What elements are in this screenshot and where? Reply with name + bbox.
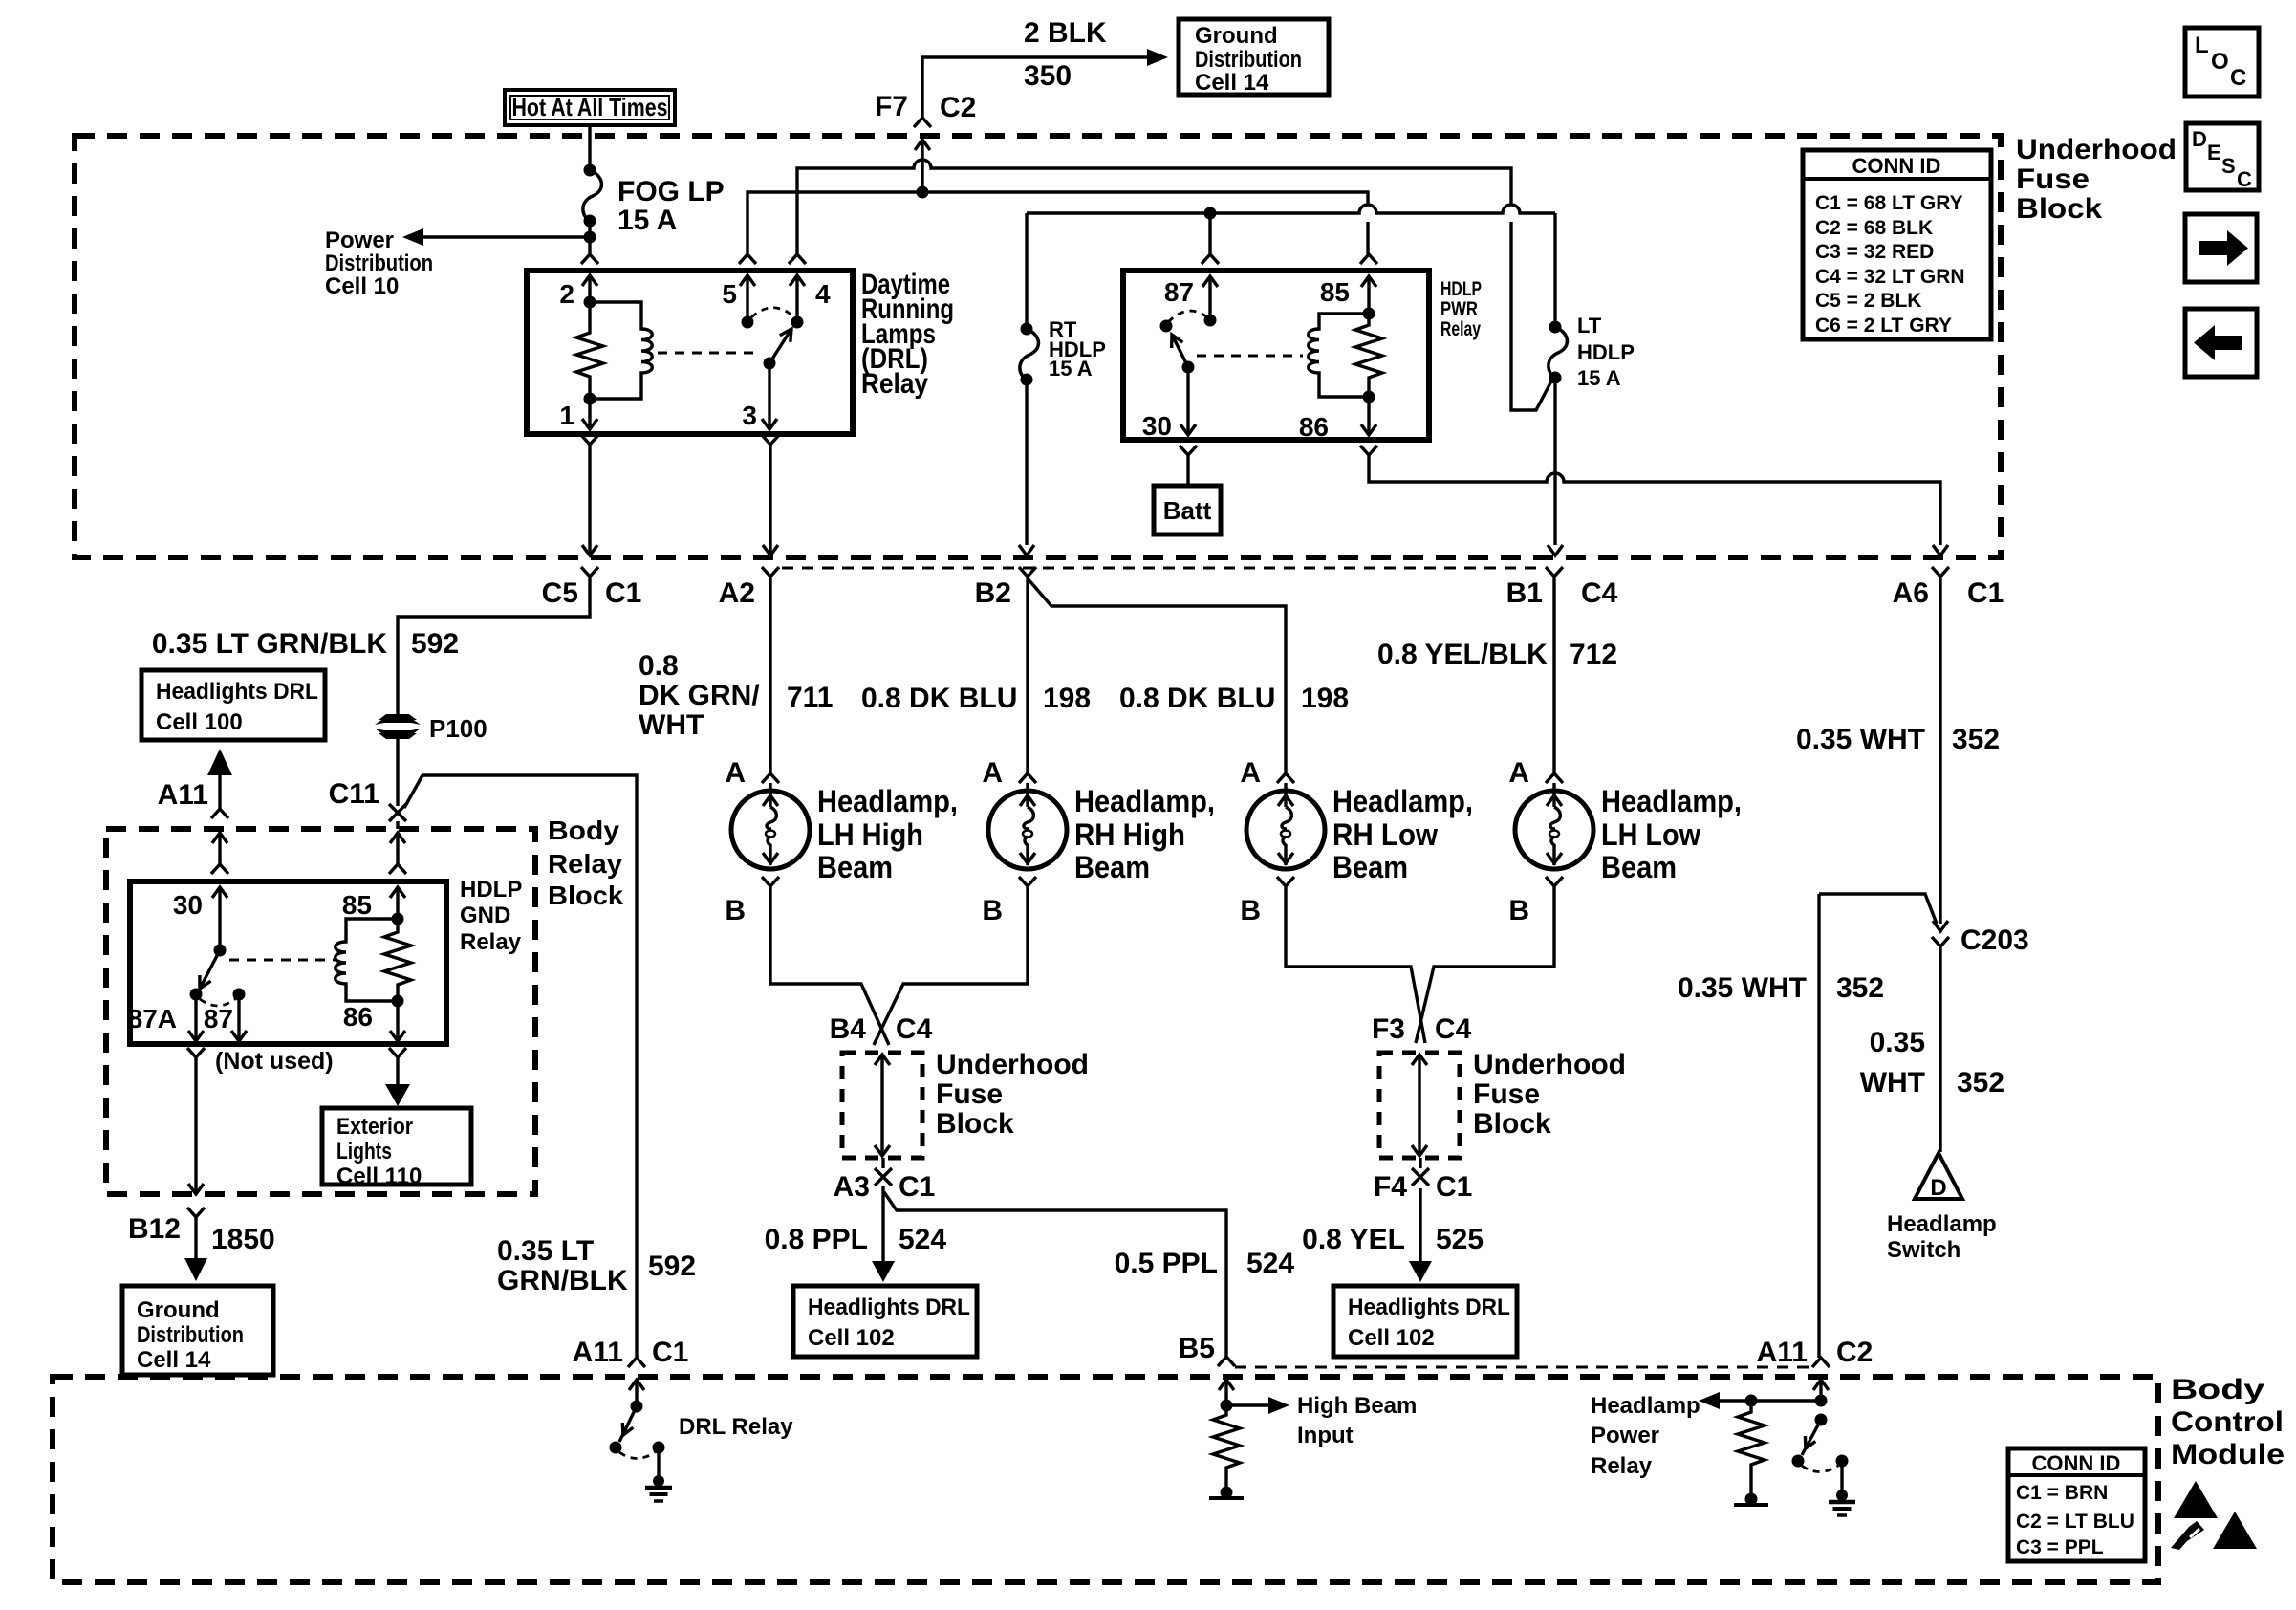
label 0.8 YEL/BLK 712 [1377, 639, 1617, 670]
pin 85 [1320, 254, 1377, 314]
dashed actuation line HDLP GND [229, 959, 336, 962]
svg-text:Underhood: Underhood [2016, 134, 2177, 165]
fuse LT HDLP 15 A [1549, 314, 1635, 390]
svg-text:B: B [1508, 895, 1529, 926]
svg-text:15 A: 15 A [1577, 366, 1621, 390]
resistor HDLP GND [384, 919, 411, 1001]
wire line3 (HDLP PWR pin87 to headlamp fuses) [1027, 205, 1555, 213]
svg-text:Cell 100: Cell 100 [156, 709, 243, 735]
underhood fuse block dashed border [75, 136, 2001, 557]
svg-text:C2: C2 [1836, 1337, 1873, 1368]
svg-text:Headlamp,: Headlamp, [1074, 784, 1215, 818]
svg-text:Relay: Relay [460, 929, 522, 955]
junction dot line2 at F7 [917, 186, 929, 199]
svg-text:Block: Block [548, 881, 623, 910]
box Ground Distribution Cell 14 (bottom) [122, 1286, 273, 1375]
wire C203 to headlamp switch [1939, 946, 1941, 1152]
svg-text:86: 86 [343, 1002, 373, 1032]
svg-text:B: B [1240, 895, 1261, 926]
switch blade Headlamp Power Relay [1792, 1414, 1828, 1468]
node B5 [1179, 1333, 1235, 1366]
svg-text:352: 352 [1952, 724, 2000, 755]
pin 3 [742, 363, 777, 430]
switch blade DRL (pin3 common) [764, 329, 792, 370]
box Headlights DRL Cell 100 [141, 670, 325, 740]
label 2 BLK 350 [1024, 17, 1107, 92]
svg-text:LH High: LH High [817, 817, 923, 852]
table CONN ID (bcm) [2008, 1448, 2145, 1561]
svg-text:S: S [2221, 154, 2236, 178]
connector C1 pin2 above DRL relay [581, 254, 598, 264]
svg-text:GND: GND [460, 903, 510, 928]
label Power Distribution Cell 10 [325, 228, 433, 299]
svg-text:A: A [725, 757, 746, 789]
svg-text:C4: C4 [1581, 577, 1618, 609]
svg-text:B4: B4 [830, 1013, 867, 1045]
svg-text:C: C [2230, 65, 2246, 91]
table CONN ID (underhood) [1803, 150, 1991, 339]
label Body Control Module [2171, 1374, 2285, 1470]
svg-text:FOG LP: FOG LP [617, 176, 725, 207]
svg-text:524: 524 [899, 1224, 946, 1255]
wire pin86 to A6 [1369, 455, 1948, 555]
icon LOC button [2185, 28, 2259, 97]
body control module dashed border [53, 1377, 2158, 1582]
label 0.8 DK BLU 198 (right) [1119, 683, 1349, 714]
wire A11 into body relay block [211, 833, 228, 874]
svg-text:85: 85 [1320, 277, 1350, 307]
fuse RT HDLP 15 A [1020, 317, 1106, 386]
svg-text:Headlights DRL: Headlights DRL [808, 1295, 970, 1320]
dashed throw arc Headlamp Power Relay [1802, 1466, 1838, 1472]
svg-text:C1: C1 [1967, 577, 2004, 609]
svg-text:B12: B12 [128, 1213, 181, 1245]
connectors below lamps [762, 877, 1563, 886]
connector P100 [375, 714, 487, 743]
svg-text:A2: A2 [719, 577, 755, 609]
svg-text:Underhood: Underhood [1473, 1049, 1626, 1080]
svg-text:C1: C1 [899, 1171, 935, 1203]
svg-text:Headlights DRL: Headlights DRL [1348, 1295, 1510, 1320]
label DRL Relay [679, 1414, 793, 1440]
svg-text:Relay: Relay [861, 368, 928, 400]
node A11 C2 (bcm right) [1757, 1337, 1874, 1368]
svg-text:Fuse: Fuse [2016, 163, 2090, 195]
svg-text:87A: 87A [128, 1004, 177, 1033]
svg-text:Distribution: Distribution [137, 1322, 244, 1348]
svg-text:0.8 DK BLU: 0.8 DK BLU [861, 683, 1017, 714]
relay HDLP PWR box [1123, 271, 1429, 440]
svg-text:2 BLK: 2 BLK [1024, 17, 1107, 49]
label 0.35 LT GRN/BLK 592 [152, 628, 459, 660]
svg-text:Headlamp: Headlamp [1591, 1393, 1700, 1419]
svg-text:Switch: Switch [1887, 1237, 1960, 1263]
svg-text:WHT: WHT [639, 709, 704, 741]
svg-text:2: 2 [559, 279, 574, 309]
svg-text:C2 = 68 BLK: C2 = 68 BLK [1815, 217, 1933, 239]
node B1 C4 [1506, 567, 1618, 609]
pin 86 (HDLP GND) [343, 1001, 405, 1041]
wire LH Low B to merge [1416, 886, 1554, 1043]
svg-text:1850: 1850 [211, 1224, 275, 1255]
svg-text:Cell 10: Cell 10 [325, 273, 399, 299]
switch Headlamp Power Relay input [1813, 1380, 1829, 1407]
lamp Headlamp RH High Beam [982, 757, 1215, 926]
svg-text:30: 30 [1142, 411, 1172, 441]
svg-text:Block: Block [2016, 193, 2102, 225]
resistor HDLP PWR [1355, 314, 1382, 397]
label Underhood Fuse Block [2016, 134, 2177, 225]
connector above pin87 [1202, 254, 1219, 264]
label 0.35 LT GRN/BLK 592 (lower) [497, 1235, 696, 1296]
label 0.35 WHT 352 (upper) [1796, 724, 2000, 755]
wire A6 down to C203 [1933, 577, 1948, 931]
svg-text:Body: Body [2171, 1374, 2264, 1405]
svg-text:Block: Block [936, 1108, 1014, 1140]
svg-text:Relay: Relay [548, 849, 622, 879]
svg-text:0.8: 0.8 [639, 650, 679, 682]
svg-text:C4 = 32 LT GRN: C4 = 32 LT GRN [1815, 266, 1965, 288]
wire 352 branch to BCM [1819, 894, 1937, 1358]
junction dot fog lp output [584, 231, 596, 244]
svg-text:0.35 LT GRN/BLK: 0.35 LT GRN/BLK [152, 628, 387, 660]
svg-text:4: 4 [815, 279, 831, 309]
pin 2 [559, 275, 597, 309]
svg-text:C203: C203 [1960, 925, 2029, 956]
pin 30 [1142, 367, 1196, 441]
wire line2 drop to pin85 [1366, 222, 1369, 254]
node A11 C1 (bcm) [573, 1337, 689, 1368]
svg-text:Lights: Lights [336, 1139, 392, 1164]
icon right-arrow button [2185, 214, 2257, 282]
wire 592 branch from C11 junction [404, 775, 637, 1358]
arrow Headlamp Power Relay [1591, 1392, 1821, 1479]
svg-text:E: E [2207, 141, 2221, 164]
svg-text:C2: C2 [940, 92, 976, 123]
wire LT fuse down to B1 [1548, 376, 1563, 555]
svg-text:B1: B1 [1506, 577, 1543, 609]
svg-text:198: 198 [1043, 683, 1091, 714]
svg-text:CONN ID: CONN ID [2032, 1451, 2121, 1475]
svg-text:0.35: 0.35 [1870, 1027, 1925, 1058]
connector below pin30 to Batt [1180, 446, 1197, 486]
label 0.35 WHT 352 (branch) [1678, 972, 1884, 1004]
svg-text:711: 711 [787, 682, 833, 713]
svg-text:592: 592 [648, 1251, 696, 1282]
svg-text:HDLP: HDLP [1577, 340, 1635, 364]
svg-text:A: A [982, 757, 1003, 789]
label Underhood Fuse Block (left passthrough) [936, 1049, 1089, 1140]
svg-text:15 A: 15 A [1049, 357, 1093, 381]
svg-text:Headlamp,: Headlamp, [817, 784, 958, 818]
svg-text:Ground: Ground [137, 1297, 220, 1323]
node F7 C2 [875, 91, 976, 127]
svg-text:3: 3 [742, 401, 757, 430]
resistor DRL coil-suppression [576, 302, 603, 399]
svg-text:Body: Body [548, 816, 619, 845]
svg-text:712: 712 [1570, 639, 1617, 670]
svg-text:Beam: Beam [817, 850, 893, 884]
label Body Relay Block [548, 816, 623, 910]
pin 1 [559, 399, 597, 430]
svg-text:Cell 110: Cell 110 [336, 1164, 422, 1189]
svg-text:Cell 102: Cell 102 [1348, 1325, 1435, 1351]
label 0.8 YEL 525 [1302, 1224, 1484, 1255]
arrow High Beam Input [1226, 1393, 1417, 1448]
svg-text:HDLP: HDLP [1440, 278, 1482, 300]
connector C203 [1932, 925, 2029, 956]
wire RH High B to merge [874, 886, 1028, 1045]
svg-text:352: 352 [1957, 1067, 2004, 1099]
connector C11 [329, 778, 406, 821]
wire F7 up and right to ground distribution [922, 49, 1168, 118]
svg-text:C3 = 32 RED: C3 = 32 RED [1815, 241, 1934, 263]
svg-text:P100: P100 [429, 714, 487, 743]
wire to Power Distribution with arrow [402, 228, 590, 246]
svg-text:Power: Power [1591, 1423, 1659, 1448]
label HDLP PWR Relay [1440, 278, 1482, 340]
coil HDLP GND winding [336, 919, 398, 1001]
coil DRL winding [590, 302, 652, 399]
svg-text:C5: C5 [542, 577, 578, 609]
svg-text:RH High: RH High [1074, 817, 1185, 852]
dashed throw arc 87A-87 [1168, 311, 1207, 322]
inline harness dashed edge top [782, 567, 1539, 570]
svg-text:A: A [1240, 757, 1261, 789]
svg-text:85: 85 [342, 890, 372, 920]
label Headlamp Switch [1887, 1211, 1997, 1263]
icon ESD warning [2171, 1481, 2257, 1550]
svg-text:87: 87 [1164, 277, 1194, 307]
lamp Headlamp LH Low Beam [1508, 757, 1742, 926]
resistor High Beam Input [1209, 1380, 1244, 1499]
svg-text:C4: C4 [896, 1013, 933, 1045]
icon DESC button [2186, 123, 2259, 191]
svg-text:GRN/BLK: GRN/BLK [497, 1265, 628, 1296]
svg-text:C1: C1 [605, 577, 641, 609]
wire line2 (F7 feed to DRL pin5 and HDLP PWR pin85) [747, 192, 1368, 254]
svg-text:LT: LT [1577, 314, 1602, 337]
svg-text:86: 86 [1299, 412, 1329, 442]
wire RT fuse down to B2 [1019, 379, 1034, 555]
svg-text:87: 87 [204, 1004, 233, 1033]
svg-text:Control: Control [2171, 1406, 2284, 1438]
svg-text:O: O [2211, 49, 2229, 75]
lamp Headlamp RH Low Beam [1240, 757, 1473, 926]
box Headlights DRL Cell 102 (right) [1333, 1286, 1517, 1357]
svg-text:B: B [982, 895, 1003, 926]
label 0.8 PPL 524 [765, 1224, 947, 1255]
wire fuse to junction [588, 221, 591, 254]
svg-text:Beam: Beam [1074, 850, 1150, 884]
pin 4 [790, 275, 831, 329]
svg-text:Distribution: Distribution [1195, 47, 1302, 73]
svg-text:L: L [2195, 33, 2209, 58]
svg-text:0.8 YEL: 0.8 YEL [1302, 1224, 1405, 1255]
wire P100 to C11 [396, 739, 399, 806]
dashed throw arc DRL Relay [619, 1452, 655, 1459]
connectors above DRL pins 5,4 [739, 254, 806, 264]
svg-text:A3: A3 [834, 1171, 870, 1203]
label 0.8 DK GRN/WHT 711 [639, 650, 833, 741]
connector below 87A [187, 1048, 334, 1075]
contact 87 [204, 989, 246, 1034]
box Batt [1154, 486, 1221, 534]
svg-text:0.8 YEL/BLK: 0.8 YEL/BLK [1377, 639, 1548, 670]
dashed throw arc pins 5-4 [751, 308, 793, 317]
svg-text:Fuse: Fuse [936, 1078, 1003, 1110]
resistor Headlamp Power Relay pull [1734, 1401, 1768, 1506]
pin 86 [1299, 397, 1376, 442]
svg-text:30: 30 [173, 890, 203, 920]
svg-text:198: 198 [1301, 683, 1349, 714]
wire F7 into fuse block [915, 140, 930, 192]
svg-text:A11: A11 [158, 779, 208, 811]
svg-text:F7: F7 [875, 91, 908, 122]
connector below pin1 [581, 435, 598, 555]
label HDLP GND Relay [460, 877, 522, 955]
inline harness dashed edge bottom [1235, 1366, 1814, 1369]
svg-text:5: 5 [722, 279, 737, 309]
svg-text:15 A: 15 A [617, 205, 677, 236]
svg-text:C1 = BRN: C1 = BRN [2016, 1482, 2108, 1504]
svg-text:(Not used): (Not used) [215, 1048, 334, 1075]
coil HDLP PWR winding [1309, 314, 1369, 397]
node A3 C1 [834, 1158, 936, 1203]
svg-text:Beam: Beam [1332, 850, 1408, 884]
arrow to Headlights DRL Cell 100 [207, 749, 232, 809]
connector below pin 86 [389, 1048, 406, 1086]
node C5 C1 [542, 567, 642, 609]
icon left-arrow button [2185, 309, 2257, 377]
svg-text:350: 350 [1024, 60, 1072, 92]
svg-text:Exterior: Exterior [336, 1114, 413, 1140]
junction dot pin1 [584, 393, 596, 405]
wire B2 branch to RH Low lamp [1028, 578, 1294, 791]
svg-text:Headlamp: Headlamp [1887, 1211, 1997, 1237]
svg-text:D: D [2192, 127, 2207, 151]
svg-text:Headlamp,: Headlamp, [1332, 784, 1473, 818]
wire 87A to B12 [188, 1057, 204, 1194]
svg-text:A: A [1508, 757, 1529, 789]
node A6 C1 [1893, 567, 2004, 609]
connector below pin3 to A2 [762, 435, 779, 555]
svg-text:C2 = LT BLU: C2 = LT BLU [2016, 1511, 2134, 1533]
svg-text:Beam: Beam [1601, 850, 1677, 884]
underhood fuse block pass-through (high beam) [842, 1053, 922, 1158]
svg-text:Ground: Ground [1195, 23, 1278, 49]
svg-text:F4: F4 [1374, 1171, 1407, 1203]
switch blade HDLP PWR (pin30 common) [1160, 320, 1195, 374]
switch DRL Relay input [610, 1380, 645, 1454]
label 0.5 PPL 524 [1115, 1248, 1295, 1279]
svg-text:524: 524 [1246, 1248, 1294, 1279]
wire Hot At All Times to fuse [588, 125, 591, 170]
label Daytime Running Lamps (DRL) Relay [861, 269, 954, 400]
svg-text:B: B [725, 895, 746, 926]
svg-text:A11: A11 [1757, 1337, 1808, 1368]
svg-text:C1: C1 [1436, 1171, 1472, 1203]
wire line3 drop to LT fuse top [1553, 213, 1556, 327]
box Ground Distribution Cell 14 (top) [1179, 19, 1329, 96]
svg-text:Headlights DRL: Headlights DRL [156, 679, 318, 705]
svg-text:HDLP: HDLP [460, 877, 522, 903]
wire line1 (DRL pin4 to LT HDLP fuse feed) [797, 160, 1511, 254]
lamp Headlamp LH High Beam [725, 757, 958, 926]
switch blade HDLP GND [200, 950, 220, 989]
svg-text:DRL Relay: DRL Relay [679, 1414, 793, 1440]
wire F4 down to Headlights DRL [1409, 1188, 1432, 1282]
node B12 [128, 1207, 275, 1255]
svg-text:C1 = 68 LT GRY: C1 = 68 LT GRY [1815, 192, 1963, 214]
svg-text:Distribution: Distribution [325, 250, 433, 276]
wire A3 branch to B5 [884, 1192, 1226, 1357]
svg-text:0.5 PPL: 0.5 PPL [1115, 1248, 1218, 1279]
body relay block dashed border [106, 829, 535, 1194]
junction dots HDLP GND coil [392, 913, 404, 1008]
svg-text:Relay: Relay [1440, 318, 1481, 340]
svg-text:Power: Power [325, 228, 394, 253]
svg-text:Batt: Batt [1163, 496, 1212, 525]
pin 85 (HDLP GND) [342, 887, 405, 920]
wire C5 to P100 [398, 577, 590, 714]
svg-text:High Beam: High Beam [1297, 1393, 1417, 1419]
svg-text:0.8 PPL: 0.8 PPL [765, 1224, 868, 1255]
pin 87 wire [231, 994, 247, 1041]
svg-text:0.35 WHT: 0.35 WHT [1678, 972, 1807, 1004]
wire RH Low B to merge [1286, 886, 1425, 1043]
wire line1 drop to LT fuse bottom [1511, 222, 1555, 410]
fuse FOG LP 15 A [583, 164, 725, 237]
svg-text:C11: C11 [329, 778, 379, 810]
node A2 [719, 567, 779, 609]
svg-text:C: C [2237, 167, 2252, 191]
svg-text:0.35 WHT: 0.35 WHT [1796, 724, 1925, 755]
svg-text:A11: A11 [573, 1337, 623, 1368]
wire A3 down to Headlights DRL [872, 1186, 895, 1282]
svg-text:C6 = 2 LT GRY: C6 = 2 LT GRY [1815, 315, 1952, 337]
wire A2 to LH High lamp [762, 577, 779, 791]
label 0.35 WHT 352 (lower) [1860, 1027, 2004, 1099]
svg-text:Block: Block [1473, 1108, 1551, 1140]
svg-text:352: 352 [1836, 972, 1884, 1004]
pin 30 (HDLP GND) [173, 887, 227, 957]
wire line3 drop to pin87 [1208, 213, 1211, 254]
label Underhood Fuse Block (right passthrough) [1473, 1049, 1626, 1140]
wire B12 to ground distribution [184, 1217, 207, 1281]
svg-text:Relay: Relay [1591, 1453, 1653, 1479]
svg-text:Cell 14: Cell 14 [1195, 70, 1269, 96]
node F3 C4 [1372, 1013, 1472, 1045]
junction dot pin2 [584, 296, 596, 309]
svg-text:Headlamp,: Headlamp, [1601, 784, 1742, 818]
wire C11 into body relay block [389, 821, 406, 874]
pin 87 [1164, 276, 1218, 327]
headlamp switch terminal D [1915, 1153, 1962, 1201]
svg-text:RH Low: RH Low [1332, 817, 1438, 852]
svg-text:Cell 14: Cell 14 [137, 1347, 211, 1373]
svg-text:C1: C1 [652, 1337, 688, 1368]
ground DRL Relay contact [645, 1442, 672, 1502]
box Hot At All Times [505, 90, 675, 125]
svg-text:0.35 LT: 0.35 LT [497, 1235, 594, 1267]
wire B1 to LH Low lamp [1546, 577, 1563, 791]
pin 87A wire [188, 994, 204, 1041]
wire line3 drop to RT fuse [1025, 213, 1028, 329]
box Headlights DRL Cell 102 (left) [793, 1286, 977, 1357]
contact 87A [128, 989, 203, 1034]
svg-text:Hot At All Times: Hot At All Times [512, 93, 668, 121]
